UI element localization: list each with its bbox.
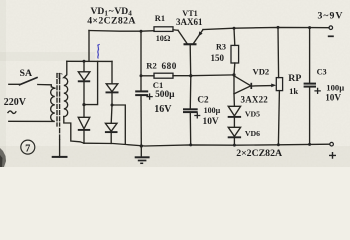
- wire 220V top lead: [9, 83, 20, 85]
- svg-text:10Ω: 10Ω: [156, 34, 171, 43]
- label R3: [216, 42, 226, 51]
- svg-text:100µ: 100µ: [326, 83, 344, 93]
- diode VD1: [78, 72, 90, 82]
- svg-text:220V: 220V: [4, 97, 27, 108]
- label VD5: [245, 109, 260, 118]
- transistor VT1: [178, 30, 203, 76]
- svg-text:7: 7: [25, 143, 30, 154]
- node RP top junction: [277, 26, 280, 29]
- svg-text:10V: 10V: [325, 92, 341, 102]
- label 2x2CZ82A: [236, 148, 282, 159]
- label VD1~VD4: [91, 6, 133, 18]
- label plus polarity: [329, 152, 336, 159]
- label SA: [20, 68, 33, 79]
- label minus polarity: [328, 35, 334, 37]
- diode VD6: [228, 127, 241, 145]
- resistor R3: [231, 28, 239, 75]
- label C3 100u: [326, 83, 344, 93]
- node C1 bottom junction: [140, 144, 143, 147]
- switch SA blade: [20, 78, 55, 89]
- label VD2: [253, 67, 270, 77]
- node C1 top junction: [140, 30, 143, 33]
- svg-text:C1: C1: [153, 80, 164, 90]
- label C2: [197, 95, 209, 105]
- corner smudge: [0, 148, 6, 167]
- svg-text:4×2CZ82A: 4×2CZ82A: [87, 16, 136, 27]
- wire top rail left: [89, 30, 154, 33]
- transformer T primary winding: [9, 88, 55, 121]
- label 500u: [155, 90, 175, 100]
- wire VD2 to RP wiper: [252, 84, 277, 88]
- wire right mid link down: [112, 105, 125, 144]
- wire base node to R3 node: [191, 74, 234, 77]
- svg-text:VD5: VD5: [245, 109, 260, 118]
- svg-text:R2: R2: [146, 61, 157, 71]
- node left mid junction: [82, 103, 85, 106]
- label C2 100u: [204, 106, 221, 115]
- transformer T secondary winding: [64, 61, 68, 116]
- potentiometer RP: [276, 27, 282, 144]
- wire VD5 to VD6: [233, 117, 235, 127]
- capacitor C1: [135, 31, 148, 146]
- svg-text:150: 150: [211, 53, 225, 63]
- wire bottom rail: [84, 143, 330, 146]
- svg-text:SA: SA: [20, 68, 33, 79]
- svg-text:2×2CZ82A: 2×2CZ82A: [236, 148, 282, 159]
- label RP: [288, 73, 301, 84]
- node R3 bottom junction: [232, 73, 235, 76]
- label 3AX61: [176, 17, 203, 27]
- node right mid junction: [111, 104, 114, 107]
- capacitor C2: [183, 76, 198, 145]
- svg-text:3AX22: 3AX22: [241, 94, 269, 104]
- svg-text:R1: R1: [155, 14, 165, 23]
- wire left column upper lead: [83, 61, 85, 72]
- label 1k: [289, 86, 298, 96]
- svg-text:VD6: VD6: [245, 129, 260, 138]
- node R2 left junction: [140, 74, 143, 77]
- label 3AX22: [241, 94, 269, 104]
- diode VD2 (bridge): [78, 105, 90, 144]
- label R2 680: [146, 61, 176, 71]
- terminal output minus bottom: [330, 142, 334, 146]
- label C3 10V: [325, 92, 341, 102]
- svg-text:C3: C3: [317, 67, 327, 76]
- svg-text:3AX61: 3AX61: [176, 17, 203, 27]
- terminal output plus top: [329, 26, 333, 30]
- ground (core): [52, 140, 68, 157]
- label C2 plus: [194, 113, 200, 119]
- label C2 10V: [203, 117, 219, 127]
- node RP bottom junction: [277, 143, 280, 146]
- wire right column middle: [111, 92, 113, 105]
- wire secondary bottom to bottom rail: [64, 117, 84, 144]
- svg-text:3~9V: 3~9V: [318, 10, 344, 21]
- ground (bottom rail): [135, 146, 150, 163]
- svg-text:VD2: VD2: [253, 67, 270, 77]
- blue scan mark: [97, 44, 100, 58]
- svg-text:16V: 16V: [154, 104, 172, 115]
- wire bridge top bus: [67, 60, 112, 62]
- wire rail drop to bus: [88, 31, 90, 62]
- node C2 bottom junction: [189, 143, 192, 146]
- resistor R2: [141, 73, 191, 78]
- node bridge top left junction: [83, 60, 86, 63]
- svg-text:10V: 10V: [203, 117, 219, 127]
- diode VD5: [228, 106, 241, 117]
- label C1: [153, 80, 164, 90]
- capacitor C3: [304, 28, 316, 145]
- svg-text:R3: R3: [216, 42, 226, 51]
- figure number 7: [21, 140, 35, 154]
- diode VD4: [105, 105, 118, 143]
- svg-text:100µ: 100µ: [204, 106, 221, 115]
- label T: [57, 71, 63, 81]
- diode VD2 3AX22 (regulator element): [234, 76, 251, 94]
- svg-text:680: 680: [162, 61, 177, 71]
- wire mid link and riser: [84, 61, 98, 104]
- wire R1 to VT1: [173, 29, 178, 32]
- svg-text:500µ: 500µ: [155, 90, 175, 100]
- label C3: [317, 67, 327, 76]
- label 3~9V: [318, 10, 344, 21]
- node C3 bottom junction: [308, 143, 311, 146]
- label R1: [155, 14, 165, 23]
- resistor R1: [154, 27, 173, 32]
- svg-text:RP: RP: [288, 73, 301, 84]
- wire column to VD5: [233, 75, 235, 106]
- wire top rail right: [203, 27, 329, 29]
- node VT1 base junction: [189, 74, 192, 77]
- wire left column middle: [83, 81, 85, 104]
- label 10ohm: [156, 34, 171, 43]
- label VD6: [245, 129, 260, 138]
- svg-text:1k: 1k: [289, 86, 298, 96]
- label 150: [211, 53, 225, 63]
- wire right column upper: [111, 61, 113, 83]
- label 4x2CZ82A: [87, 16, 136, 27]
- label VT1: [182, 9, 197, 18]
- label 220V: [4, 97, 27, 108]
- label C1 plus: [146, 93, 152, 99]
- node C3 top junction: [308, 26, 311, 29]
- node R3 top junction: [233, 27, 236, 30]
- transformer core: [57, 74, 60, 141]
- node VD6 bottom junction: [233, 144, 236, 147]
- diode VD3: [106, 84, 119, 93]
- AC tilde symbol: [8, 111, 16, 114]
- label C3 plus: [314, 88, 320, 94]
- label 16V: [154, 104, 172, 115]
- svg-text:C2: C2: [197, 95, 209, 105]
